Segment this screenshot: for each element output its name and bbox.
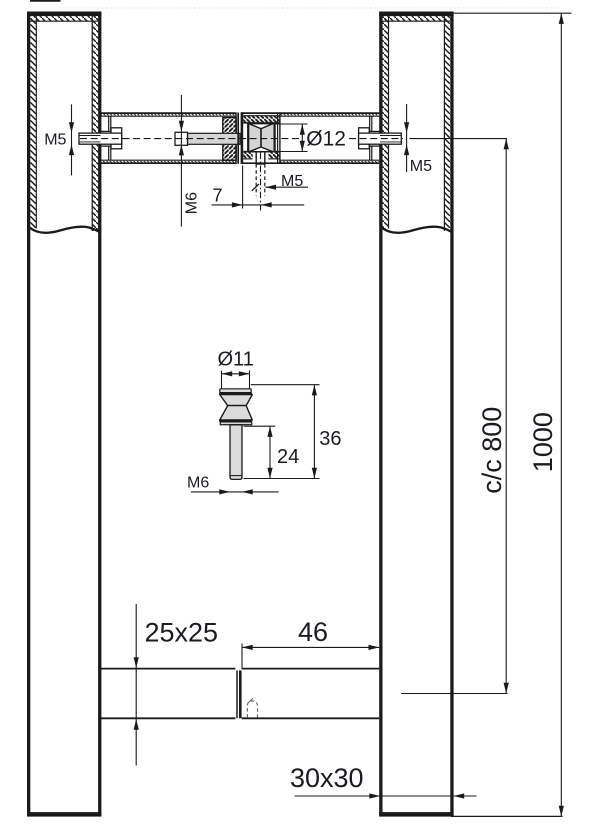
horizontal centerline of top assembly <box>80 138 403 140</box>
label M6 (detail stud thread) <box>187 475 279 495</box>
right M5 screw bushing body <box>359 128 370 149</box>
clamp nut block left of panel <box>223 118 236 161</box>
dimension Ø11 (detail) <box>218 349 254 389</box>
right tube wall hatch top <box>383 16 451 21</box>
left tube outer right edge <box>98 12 101 817</box>
left vertical tube 30x30 (section view top, elevation below) <box>27 12 101 817</box>
fitting housing sleeve (hatched walls) <box>243 113 280 164</box>
svg-text:46: 46 <box>298 617 328 647</box>
svg-text:7: 7 <box>213 185 223 205</box>
svg-text:M6: M6 <box>184 192 201 214</box>
right tube bottom edge <box>379 812 453 817</box>
lower crossbar right section (elevation) <box>242 669 380 719</box>
detail threaded stud M6 <box>230 425 242 480</box>
dimension M6 (rod) <box>179 95 201 227</box>
centerline extension to c/c dimension <box>410 138 508 140</box>
right M5 screw bushing flange <box>369 131 379 146</box>
detail cone lower <box>220 406 253 420</box>
left tube break line (wavy) <box>30 227 99 233</box>
crossbar right end inner cap double line <box>369 117 371 161</box>
right tube outer right edge <box>450 12 453 817</box>
left M5 screw bushing body <box>111 128 122 149</box>
label M5 (mounting stud leader) <box>252 173 308 191</box>
right vertical tube 30x30 (section view top, elevation below) <box>379 12 453 817</box>
M5 mounting stud below fitting <box>256 152 265 211</box>
dimension 46 (overhang) <box>242 617 379 669</box>
conical adapter Ø12 (bowtie section) <box>247 124 276 152</box>
svg-text:24: 24 <box>277 446 299 468</box>
svg-text:M5: M5 <box>410 158 432 175</box>
extension line lower centerline to c/c dimension <box>401 693 508 695</box>
dimension 1000 (tube length) <box>451 13 572 816</box>
detail top cap <box>220 389 251 393</box>
left tube bottom edge <box>27 812 101 817</box>
svg-text:30x30: 30x30 <box>290 763 364 793</box>
stud vertical centerline <box>260 153 262 211</box>
svg-text:M5: M5 <box>44 131 66 148</box>
svg-text:M6: M6 <box>187 475 209 492</box>
right tube break line (wavy) <box>382 227 451 233</box>
left M5 screw bushing flange <box>101 131 111 146</box>
dimension 7 (panel offset) <box>212 166 305 209</box>
left tube wall hatch top <box>30 16 98 21</box>
svg-text:Ø11: Ø11 <box>218 349 254 371</box>
dimension 25x25 (crossbar size) <box>134 604 218 766</box>
dimension 24 (detail stud length) <box>244 426 300 478</box>
detail cone upper <box>220 395 253 406</box>
left M5 screw shaft <box>79 133 122 144</box>
M6 rod end collar <box>175 132 188 145</box>
M6 threaded rod <box>188 133 241 144</box>
svg-text:25x25: 25x25 <box>145 618 219 648</box>
lower crossbar panel joint <box>237 671 240 719</box>
svg-text:Ø12: Ø12 <box>306 128 346 151</box>
detail view: glass fixing stud Ø11 <box>219 389 252 480</box>
dimension M5 (right screw) <box>404 104 432 175</box>
crossbar left section (top section view) <box>101 113 237 164</box>
detail bottom cap <box>220 422 251 425</box>
housing right face lines <box>277 114 279 164</box>
left tube top edge <box>27 12 101 17</box>
lower crossbar left section (elevation) <box>101 669 235 719</box>
cropped artifact line top-left <box>30 1 560 8</box>
door panel joint (top view) <box>238 112 242 164</box>
svg-text:1000: 1000 <box>528 412 558 472</box>
right tube wall hatch left <box>383 16 389 231</box>
dimension 36 (detail overall) <box>244 385 342 479</box>
right tube top edge <box>379 12 453 17</box>
dimension c/c 800 <box>477 139 509 694</box>
svg-text:M5: M5 <box>281 173 303 190</box>
right M5 screw shaft <box>359 133 402 144</box>
dimension 30x30 (tube size) <box>290 763 477 798</box>
left tube outer left edge <box>27 12 30 817</box>
right tube outer left edge <box>379 12 382 817</box>
crossbar left section end line at panel <box>235 113 237 164</box>
crossbar right section (top section view) <box>241 113 379 163</box>
svg-text:c/c 800: c/c 800 <box>477 407 507 494</box>
left tube wall hatch left <box>30 16 36 228</box>
hidden fitting outline (dashed cup) in lower crossbar <box>247 698 257 717</box>
crossbar left end inner cap double line <box>108 117 110 161</box>
left tube wall hatch right <box>92 16 98 231</box>
dimension M5 (left screw) <box>44 104 74 175</box>
svg-text:36: 36 <box>319 428 341 450</box>
dimension Ø12 (cone) <box>273 124 347 152</box>
right tube wall hatch right <box>445 16 451 228</box>
